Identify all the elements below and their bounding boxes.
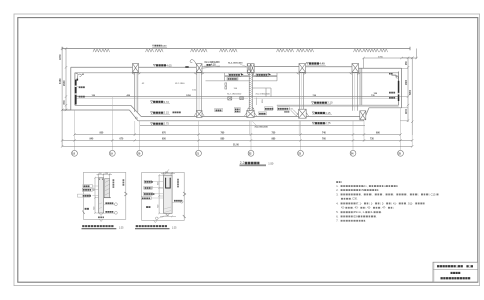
svg-text:42-: 42- <box>341 206 345 210</box>
column C <box>132 72 141 112</box>
detail 1 left dim texts <box>93 187 95 210</box>
detail 2 left dim <box>158 174 163 214</box>
roof beam D <box>196 64 202 73</box>
svg-text:2m,: 2m, <box>363 184 368 188</box>
bottom slab deep section <box>138 116 364 120</box>
bottom dim row 2 texts <box>90 138 375 141</box>
detail 2 bottom circle label <box>156 217 164 220</box>
mid level label <box>151 100 171 104</box>
bottom dim row 1 texts <box>100 132 381 135</box>
detail 1 hanger bar <box>104 179 111 198</box>
svg-text:4.40: 4.40 <box>319 62 325 66</box>
grid bubble G <box>350 150 356 156</box>
grid bubble D <box>196 150 202 156</box>
bottom beam G step <box>360 111 366 120</box>
mid-bottom boxed label 2 <box>277 107 293 111</box>
detail 2 top break leader <box>165 169 170 175</box>
svg-text:2-2: 2-2 <box>240 161 245 165</box>
svg-text:XL2-1900: XL2-1900 <box>175 83 185 85</box>
equipment floor label right <box>312 101 334 105</box>
detail 2 wall <box>163 175 172 213</box>
column G <box>350 72 360 111</box>
detail 2 left dim texts <box>157 181 159 208</box>
mid-bottom boxed label 1 <box>265 107 274 111</box>
grid bubble H <box>398 150 404 156</box>
right dim rotated texts <box>406 60 412 114</box>
title block row 2 text <box>451 272 461 274</box>
right wall waterproof bar <box>398 81 400 101</box>
right bar label 2 <box>389 97 395 99</box>
svg-text:5950: 5950 <box>410 89 412 95</box>
bottom dim row 3 total <box>61 145 414 147</box>
left wall <box>71 67 78 110</box>
svg-text:XL2-900x600: XL2-900x600 <box>255 127 269 129</box>
roof beams E pair <box>247 64 254 73</box>
bottom beam F <box>296 109 309 118</box>
bottom beam E <box>244 110 257 117</box>
detail 2 right vertical label <box>177 179 179 188</box>
svg-text:5.: 5. <box>336 210 338 214</box>
duct slab left label <box>227 73 244 80</box>
svg-text:2930: 2930 <box>63 80 66 86</box>
svg-text:1250: 1250 <box>186 95 192 97</box>
notes block <box>336 182 439 223</box>
detail 1 wall <box>99 178 104 213</box>
detail 2 title <box>135 226 177 229</box>
ground line <box>62 47 410 50</box>
detail 2 leader circle <box>172 200 183 203</box>
roof beam F <box>299 64 306 73</box>
extension lines to dims <box>75 108 413 150</box>
title block <box>433 262 478 282</box>
left bar label 1 <box>77 86 85 89</box>
svg-text:3.72: 3.72 <box>164 100 170 104</box>
deep floor label left <box>151 111 181 115</box>
detail 2 top dims <box>161 172 175 175</box>
duct slab left <box>206 73 250 89</box>
left wall waterproof bar <box>75 80 77 105</box>
svg-text:3.: 3. <box>336 192 338 196</box>
grid bubble C <box>137 150 143 156</box>
mud mat label right <box>312 121 331 125</box>
roof beam G <box>352 64 359 73</box>
right bay partition wall <box>360 69 362 106</box>
bottom slab right shallow bay <box>277 105 402 121</box>
left dim rotated texts <box>59 54 66 105</box>
mid slab dim texts <box>92 93 378 97</box>
detail 1 label waterproof strengthen <box>78 194 99 197</box>
svg-text:1870: 1870 <box>59 54 62 60</box>
svg-text:. 43-: . 43- <box>353 206 358 210</box>
detail 1 box <box>82 172 127 219</box>
center vertical dim rotated <box>257 98 264 106</box>
detail 1 top dim texts <box>99 173 108 175</box>
detail 2 box bottom break <box>154 220 157 222</box>
detail 2 label low <box>141 197 163 200</box>
svg-text:4.05: 4.05 <box>166 63 172 67</box>
detail 2 U channel <box>166 178 171 188</box>
right dimension chain <box>399 57 414 135</box>
grid bubble B <box>109 150 115 156</box>
ground hatch marks <box>93 49 388 52</box>
roof level label right <box>306 62 326 66</box>
svg-text:2.75: 2.75 <box>164 122 170 126</box>
detail 1 label waterproof <box>83 185 99 188</box>
svg-text:870: 870 <box>63 100 66 105</box>
roof beam leader label D <box>201 61 220 68</box>
detail 1 leader circle 2 <box>104 211 118 214</box>
svg-text:. 42-: . 42- <box>366 206 371 210</box>
grid bubble A <box>72 150 78 156</box>
detail 2 wall bottom break <box>166 213 170 215</box>
detail 2 bottom dim <box>160 215 176 218</box>
svg-text:1150: 1150 <box>406 108 408 114</box>
stair step marks left of F <box>291 110 299 116</box>
svg-text:6150: 6150 <box>59 78 62 84</box>
column F <box>297 72 306 109</box>
section title <box>240 161 274 166</box>
svg-text:2.75: 2.75 <box>325 121 331 125</box>
roof embed leader D left <box>185 60 196 68</box>
svg-text:. C15: . C15 <box>429 192 436 196</box>
ground level label <box>152 45 167 48</box>
detail 2 label waterproof <box>144 192 164 195</box>
svg-text:7.: 7. <box>336 219 338 223</box>
svg-text:2-: 2- <box>371 210 373 214</box>
svg-text:. 1-: . 1- <box>369 201 373 205</box>
svg-text:3.15: 3.15 <box>164 111 170 115</box>
grid bubble F <box>298 150 304 156</box>
svg-text:51.00: 51.00 <box>233 145 239 147</box>
beam label below floor <box>253 122 269 129</box>
title block row 3 text <box>441 277 471 279</box>
mud mat label left <box>151 122 170 126</box>
svg-text:3.15: 3.15 <box>325 111 331 115</box>
svg-text:. C30.: . C30. <box>351 197 358 201</box>
detail 2 box <box>141 172 186 234</box>
svg-text:1:25: 1:25 <box>172 227 177 229</box>
central shaft hatch <box>249 73 252 111</box>
detail 1 top dims <box>97 173 113 178</box>
right corner embed detail <box>389 74 399 81</box>
svg-text:2.: 2. <box>336 188 338 192</box>
svg-text:T. 1-: T. 1- <box>357 201 362 205</box>
detail 1 leader circle 1 <box>104 203 118 206</box>
svg-text:1:25: 1:25 <box>119 227 124 229</box>
small beams under mid slab center <box>228 97 244 100</box>
left corner embed detail <box>77 73 85 81</box>
column axis center lines <box>112 72 354 112</box>
duct slab right label <box>256 73 271 76</box>
right bar label 1 <box>389 91 399 93</box>
right top dim line <box>362 49 417 69</box>
bottom slab left shallow bay <box>62 105 141 121</box>
bottom dim row 2 <box>61 139 414 141</box>
center bottom label cluster <box>215 108 289 115</box>
roof level label <box>153 63 173 67</box>
roof slab ceiling line <box>75 72 399 74</box>
svg-text:50: 50 <box>99 173 101 175</box>
svg-text:XL2-1900x600: XL2-1900x600 <box>228 63 243 65</box>
left bar label 2 <box>77 95 85 98</box>
left dimension chain <box>61 47 71 146</box>
detail 1 right vertical label <box>112 179 114 188</box>
detail 2 label midslab <box>146 206 150 208</box>
right wall <box>399 68 402 108</box>
svg-text:2880: 2880 <box>406 79 408 85</box>
column D <box>194 72 204 110</box>
svg-text:1.: 1. <box>336 184 338 188</box>
roof beam C <box>133 64 139 73</box>
svg-text:. 911-: . 911- <box>407 201 414 205</box>
weep hole circle on step <box>135 117 137 119</box>
bottom beam D <box>194 111 204 118</box>
detail 2 label hanger <box>144 180 163 183</box>
svg-text:3780: 3780 <box>378 56 384 58</box>
detail 1 box bottom break <box>99 219 102 221</box>
mud mat line <box>140 124 365 126</box>
doubled extensions at E F <box>250 121 300 135</box>
svg-text:4.: 4. <box>336 201 338 205</box>
duct slab right <box>252 73 277 81</box>
svg-text:4.18: 4.18 <box>211 64 216 67</box>
central shaft walls <box>248 72 254 110</box>
svg-text:6.: 6. <box>336 214 338 218</box>
detail 1 label midslab <box>85 208 89 210</box>
roof slab top line <box>71 67 402 69</box>
stair landing right <box>252 88 271 97</box>
svg-text:XL2-1900x600: XL2-1900x600 <box>227 93 242 95</box>
roof beam leader label E left <box>228 63 246 67</box>
detail 1 label strengthen <box>82 188 98 191</box>
detail 1 wall bottom break <box>99 213 103 215</box>
grid bubble E <box>248 150 254 156</box>
title block row 1 text <box>437 264 473 268</box>
mid slab <box>75 97 399 99</box>
svg-text:3.10: 3.10 <box>327 101 333 105</box>
svg-text:XL2-1900x600: XL2-1900x600 <box>256 93 271 95</box>
svg-text:150: 150 <box>105 173 108 175</box>
detail 1 title <box>82 226 125 229</box>
svg-text:. 2-: . 2- <box>380 201 384 205</box>
bay small texts <box>142 83 197 92</box>
svg-text:. 41-: . 41- <box>392 201 397 205</box>
detail 1 left dim <box>94 177 98 214</box>
deep floor label right <box>312 111 332 115</box>
svg-text:1:50: 1:50 <box>268 162 274 166</box>
detail 2 label mid <box>144 186 164 189</box>
svg-text:. 47-: . 47- <box>381 206 386 210</box>
bottom dim row 1 <box>73 133 401 135</box>
svg-text:35mm, 1-: 35mm, 1- <box>354 210 365 214</box>
